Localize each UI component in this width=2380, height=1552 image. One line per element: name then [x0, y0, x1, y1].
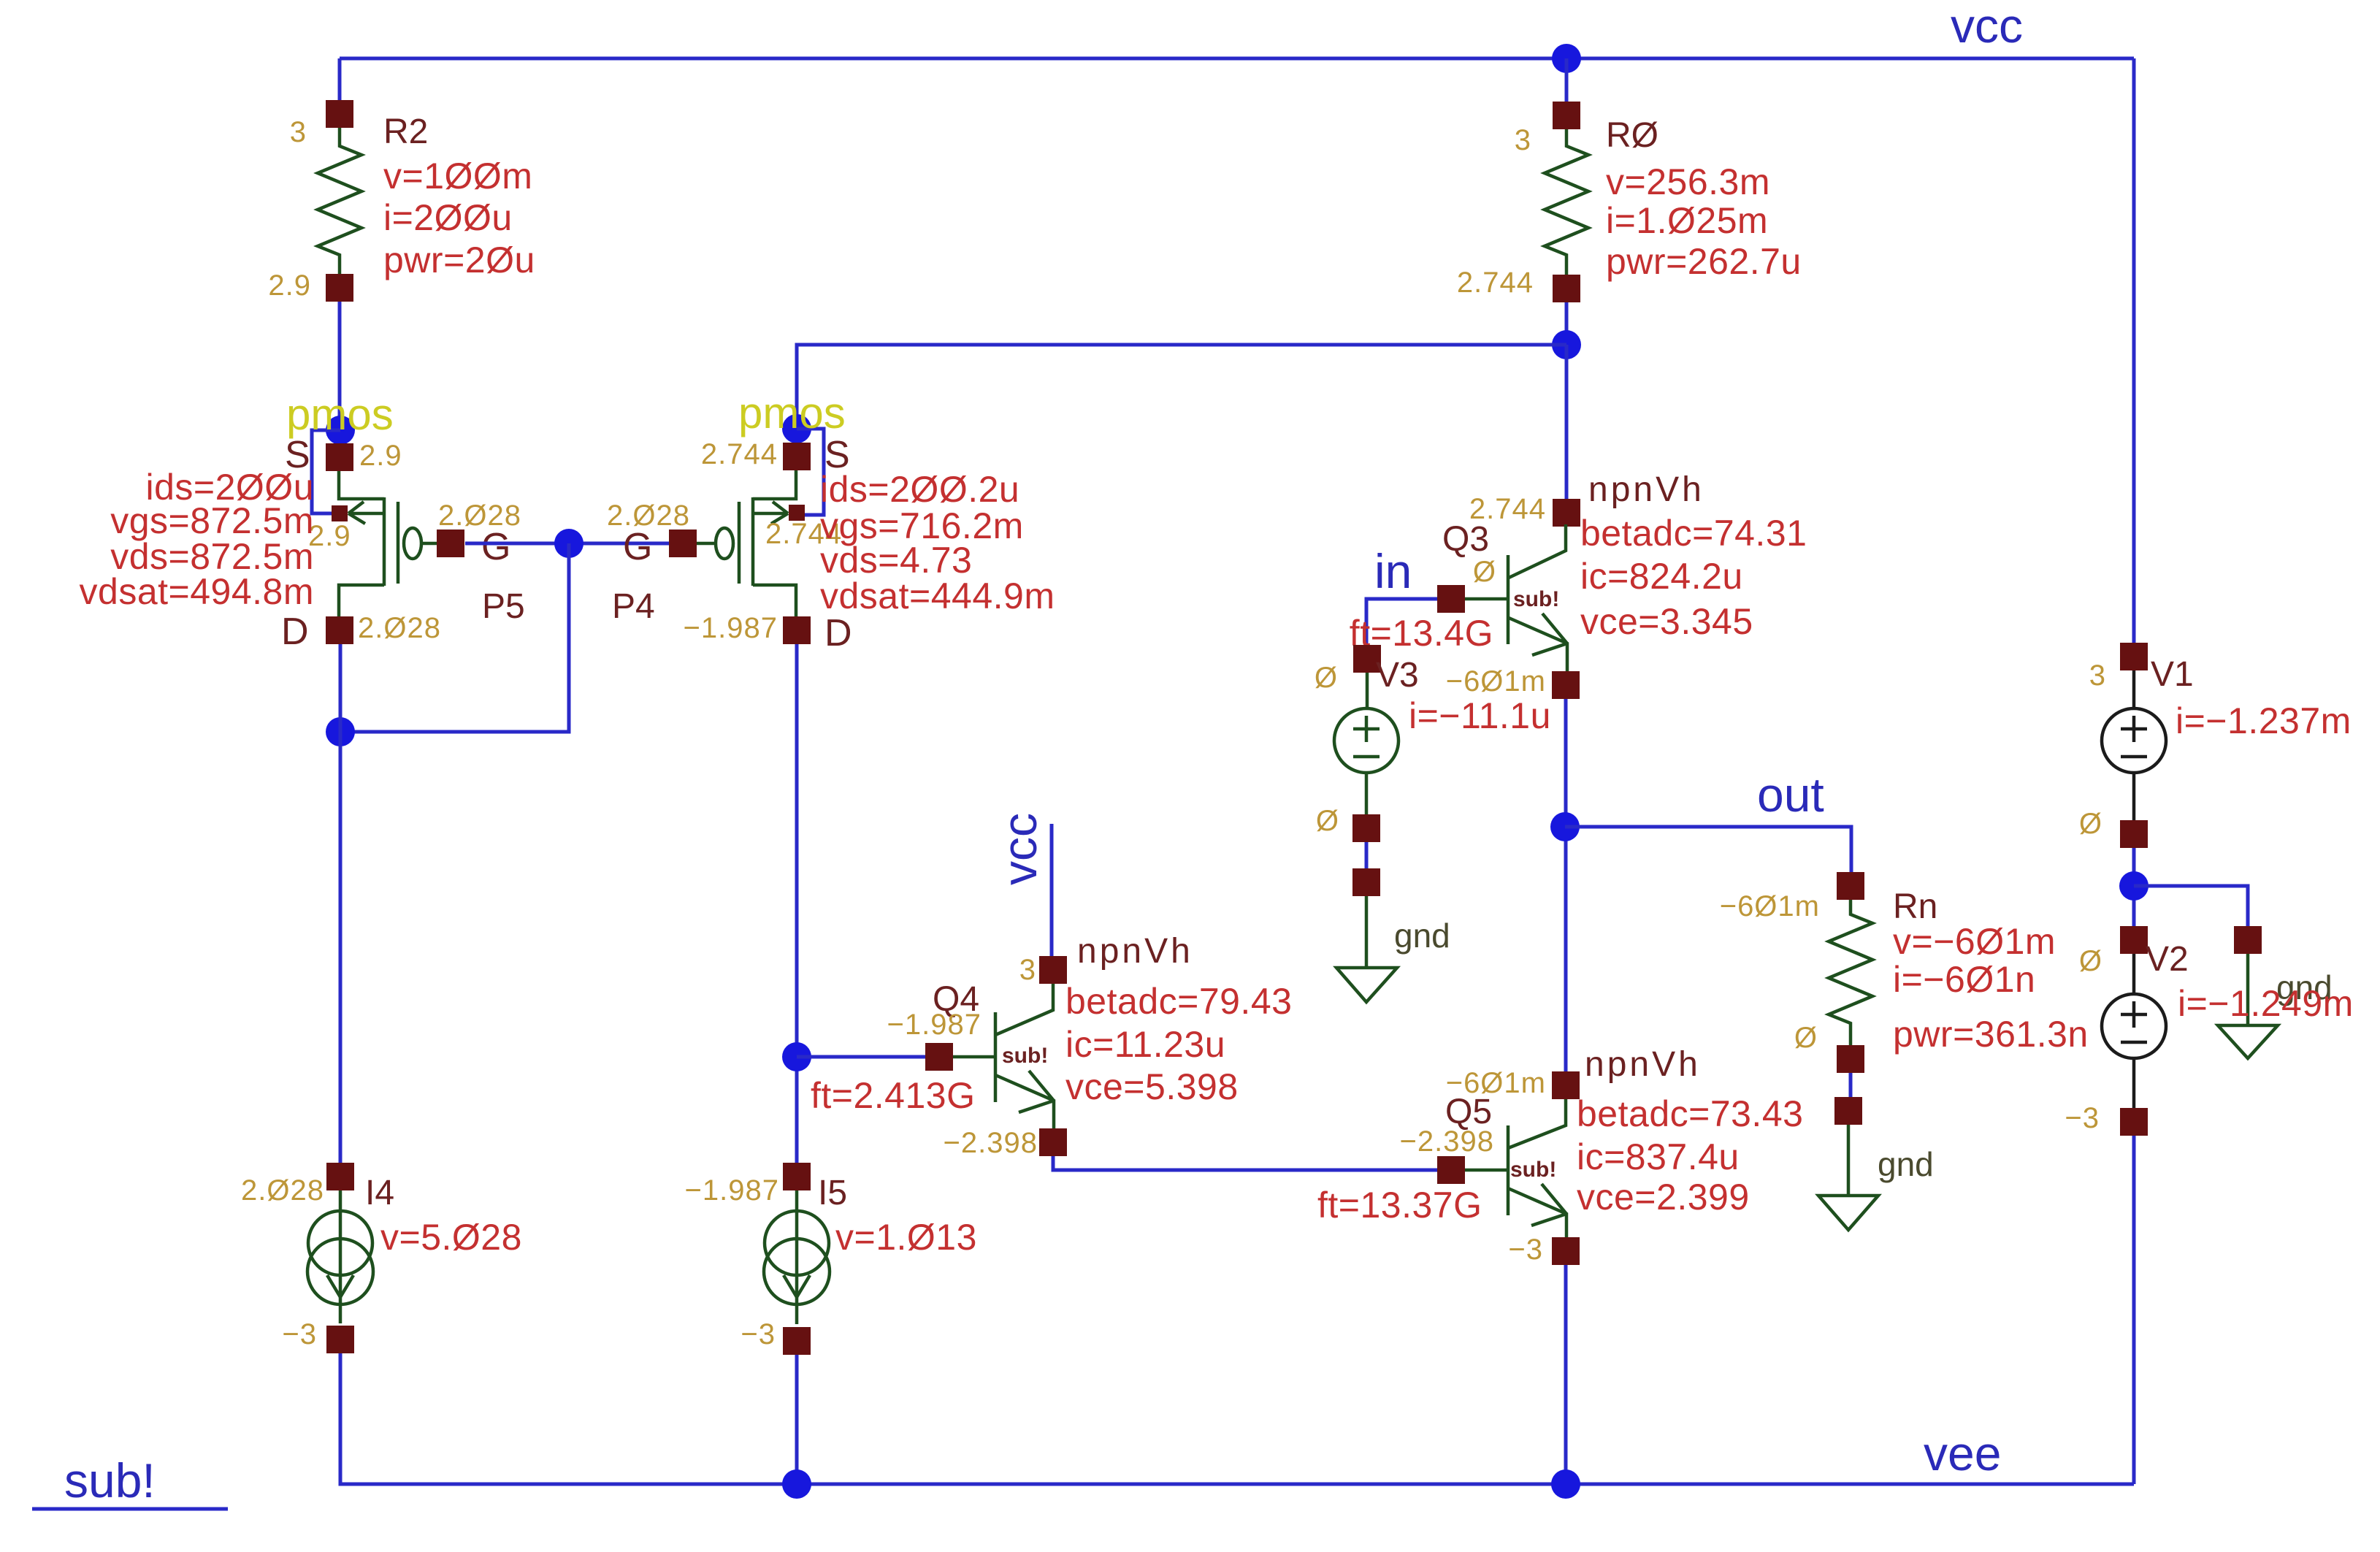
svg-text:V2: V2 — [2146, 940, 2189, 979]
svg-text:v=1.Ø13: v=1.Ø13 — [835, 1217, 977, 1258]
svg-text:−2.398: −2.398 — [944, 1127, 1038, 1159]
svg-text:i=−1.249m: i=−1.249m — [2178, 983, 2354, 1024]
svg-text:D: D — [824, 612, 852, 654]
svg-text:ids=2ØØ.2u: ids=2ØØ.2u — [820, 469, 1019, 510]
wire Q4 emitter to Q5 base — [1053, 1156, 1437, 1170]
svg-text:V1: V1 — [2151, 655, 2194, 694]
svg-text:D: D — [281, 611, 309, 653]
junction vcc/R0 — [1552, 44, 1581, 73]
wire I4 to vee — [340, 1353, 2134, 1484]
svg-text:3: 3 — [2089, 660, 2106, 692]
svg-text:−1.987: −1.987 — [887, 1009, 982, 1041]
svg-text:P4: P4 — [612, 587, 655, 626]
current source I5 — [685, 1163, 977, 1355]
vsource V2 — [2065, 926, 2353, 1136]
svg-text:ft=13.37G: ft=13.37G — [1317, 1185, 1482, 1226]
svg-text:I4: I4 — [365, 1174, 394, 1212]
wire gate to P5 drain tie — [340, 543, 569, 732]
svg-text:v=1ØØm: v=1ØØm — [383, 156, 532, 196]
svg-text:−1.987: −1.987 — [685, 1174, 779, 1207]
vsource V3 — [1315, 645, 1419, 842]
current source I4 — [241, 1163, 522, 1353]
wire vcc to R0 top — [1565, 58, 1569, 102]
svg-text:sub!: sub! — [1513, 587, 1559, 611]
svg-text:P5: P5 — [482, 587, 525, 626]
svg-text:sub!: sub! — [1510, 1158, 1556, 1182]
svg-text:vce=3.345: vce=3.345 — [1580, 601, 1753, 642]
junction gnd tap — [2119, 871, 2148, 901]
svg-text:vee: vee — [1924, 1426, 2001, 1480]
svg-text:−2.398: −2.398 — [1400, 1125, 1494, 1158]
resistor Rn — [1720, 872, 2089, 1073]
svg-text:2.9: 2.9 — [359, 440, 402, 472]
pmos P4 — [607, 389, 1055, 654]
svg-text:i=1.Ø25m: i=1.Ø25m — [1606, 200, 1768, 241]
npn Q3 — [1350, 470, 1807, 736]
junction Q4 base node — [782, 1042, 811, 1071]
svg-text:pmos: pmos — [286, 390, 394, 439]
svg-text:2.744: 2.744 — [701, 438, 778, 470]
pmos P5 — [80, 390, 525, 653]
svg-text:2.9: 2.9 — [268, 270, 311, 302]
svg-text:2.Ø28: 2.Ø28 — [241, 1174, 324, 1207]
wire P4 bulk tie — [797, 429, 824, 515]
svg-text:vdsat=444.9m: vdsat=444.9m — [820, 576, 1055, 616]
ground below Rn — [1818, 1097, 1934, 1230]
ground right of V2 — [2218, 926, 2333, 1058]
wire in net V3 to Q3 base — [1366, 599, 1437, 646]
svg-text:ic=837.4u: ic=837.4u — [1577, 1136, 1740, 1177]
svg-text:Ø: Ø — [2079, 808, 2102, 840]
svg-text:Ø: Ø — [1315, 662, 1338, 694]
wire V1 to V2 — [2132, 848, 2136, 926]
svg-text:−3: −3 — [2065, 1102, 2100, 1134]
svg-text:2.744: 2.744 — [1457, 267, 1534, 299]
svg-text:vce=2.399: vce=2.399 — [1577, 1177, 1750, 1217]
svg-text:ic=824.2u: ic=824.2u — [1580, 556, 1743, 597]
svg-text:Ø: Ø — [1473, 556, 1496, 588]
svg-text:betadc=73.43: betadc=73.43 — [1577, 1093, 1803, 1134]
svg-text:Ø: Ø — [2079, 945, 2102, 977]
svg-text:sub!: sub! — [1002, 1044, 1048, 1068]
svg-text:pwr=361.3n: pwr=361.3n — [1893, 1014, 2089, 1055]
junction P5 drain node — [326, 717, 355, 746]
svg-text:i=2ØØu: i=2ØØu — [383, 197, 513, 238]
wire P5 bulk tie — [312, 430, 340, 513]
svg-text:betadc=74.31: betadc=74.31 — [1580, 513, 1807, 554]
wire P4 drain down — [795, 644, 799, 1163]
wire P5 drain down to I4 — [339, 644, 343, 1163]
svg-text:pwr=262.7u: pwr=262.7u — [1606, 241, 1802, 282]
svg-text:i=−1.237m: i=−1.237m — [2176, 700, 2352, 741]
svg-text:−1.987: −1.987 — [684, 612, 778, 644]
svg-text:G: G — [481, 526, 510, 568]
wire vcc top rail — [340, 57, 2134, 61]
svg-text:G: G — [623, 526, 652, 568]
svg-text:gnd: gnd — [1394, 917, 1450, 955]
wire sub! stub — [32, 1507, 228, 1511]
svg-text:vcc: vcc — [992, 813, 1046, 885]
wire R0 bottom node — [1565, 302, 1569, 345]
junction out node — [1550, 812, 1580, 841]
svg-text:v=5.Ø28: v=5.Ø28 — [380, 1217, 522, 1258]
wire Rn to gnd pin — [1849, 1073, 1853, 1097]
svg-text:v=−6Ø1m: v=−6Ø1m — [1893, 921, 2056, 962]
svg-text:RØ: RØ — [1606, 116, 1658, 155]
junction P4 source node — [782, 414, 811, 443]
svg-text:npnVh: npnVh — [1585, 1045, 1701, 1084]
wire Q3 emitter to Q5 collector — [1564, 699, 1568, 1071]
resistor R2 — [268, 100, 535, 302]
svg-text:−3: −3 — [282, 1318, 317, 1350]
wire R0 node to P4 source — [797, 345, 1566, 443]
svg-text:vce=5.398: vce=5.398 — [1065, 1066, 1239, 1107]
wire gate bus P5-P4 — [465, 542, 669, 546]
svg-text:3: 3 — [290, 116, 307, 148]
resistor R0 — [1457, 102, 1802, 302]
npn Q5 — [1317, 1045, 1803, 1266]
svg-text:−6Ø1m: −6Ø1m — [1446, 665, 1546, 697]
svg-text:2.9: 2.9 — [308, 520, 351, 552]
junction Q5/vee — [1551, 1469, 1580, 1499]
svg-text:vcc: vcc — [1951, 0, 2023, 53]
svg-text:Ø: Ø — [1794, 1022, 1818, 1054]
wire gnd branch — [2134, 886, 2248, 926]
svg-text:Ø: Ø — [1316, 805, 1339, 837]
svg-text:npnVh: npnVh — [1588, 470, 1704, 509]
wire R2 bottom to P5 source — [338, 302, 342, 443]
svg-text:sub!: sub! — [64, 1453, 156, 1507]
wire Q5 emitter to vee — [1564, 1265, 1568, 1484]
vsource V1 — [2079, 643, 2352, 848]
svg-text:3: 3 — [1019, 954, 1036, 986]
svg-text:3: 3 — [1515, 124, 1531, 156]
wire R0 node to Q3 collector — [1565, 345, 1569, 499]
svg-text:−3: −3 — [741, 1318, 776, 1350]
svg-text:ft=2.413G: ft=2.413G — [811, 1075, 976, 1116]
svg-text:gnd: gnd — [1878, 1145, 1934, 1183]
svg-text:vgs=872.5m: vgs=872.5m — [110, 500, 314, 541]
svg-text:I5: I5 — [818, 1174, 847, 1212]
svg-text:−6Ø1m: −6Ø1m — [1720, 890, 1820, 922]
wire vcc to R2 top — [338, 58, 342, 100]
svg-text:ic=11.23u: ic=11.23u — [1065, 1024, 1225, 1065]
svg-text:i=−6Ø1n: i=−6Ø1n — [1893, 959, 2035, 1000]
svg-text:R2: R2 — [383, 112, 428, 151]
ground below V3 — [1336, 868, 1450, 1002]
junction gate node — [554, 529, 583, 558]
svg-text:vds=4.73: vds=4.73 — [820, 540, 972, 581]
svg-text:vdsat=494.8m: vdsat=494.8m — [80, 571, 314, 612]
wire V2 to vee — [2132, 1136, 2136, 1484]
svg-text:npnVh: npnVh — [1077, 932, 1193, 971]
svg-text:pwr=2Øu: pwr=2Øu — [383, 240, 535, 280]
junction I5/vee — [782, 1469, 811, 1499]
svg-text:out: out — [1757, 768, 1824, 822]
wire vcc right to V1 — [2132, 58, 2136, 643]
svg-text:pmos: pmos — [738, 389, 846, 437]
svg-text:−3: −3 — [1508, 1234, 1543, 1266]
wire V3 to gnd pin — [1365, 842, 1369, 868]
npn Q4 — [811, 932, 1292, 1159]
svg-text:v=256.3m: v=256.3m — [1606, 161, 1770, 202]
wire I5 to vee — [795, 1355, 799, 1484]
wire vcc stub Q4 collector — [1050, 824, 1054, 956]
svg-text:Q3: Q3 — [1442, 520, 1489, 559]
svg-text:betadc=79.43: betadc=79.43 — [1065, 981, 1292, 1022]
wire out net — [1565, 827, 1851, 872]
junction R0 bottom — [1552, 330, 1581, 359]
svg-text:V3: V3 — [1376, 656, 1419, 695]
wire to Q4 base — [797, 1055, 925, 1059]
svg-text:i=−11.1u: i=−11.1u — [1409, 695, 1551, 736]
svg-text:2.Ø28: 2.Ø28 — [358, 612, 441, 644]
junction P5 source node — [326, 416, 355, 445]
svg-text:in: in — [1374, 544, 1412, 598]
